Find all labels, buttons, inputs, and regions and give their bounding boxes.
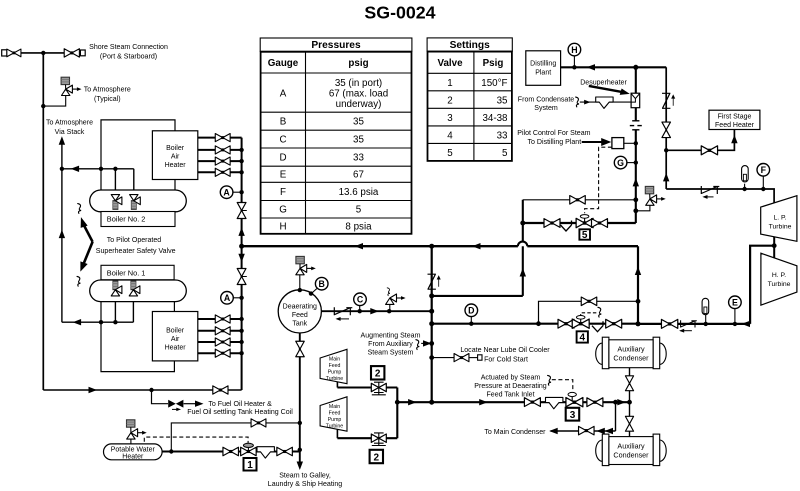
svg-text:5: 5 [356, 205, 362, 216]
svg-text:2: 2 [375, 369, 381, 380]
svg-text:Laundry & Ship Heating: Laundry & Ship Heating [268, 481, 343, 488]
svg-text:Tank: Tank [292, 321, 307, 328]
svg-text:psig: psig [348, 58, 368, 69]
svg-text:Pump: Pump [328, 370, 342, 376]
svg-text:Via Stack: Via Stack [55, 129, 85, 136]
svg-text:5: 5 [502, 148, 508, 159]
svg-text:35: 35 [497, 95, 508, 106]
svg-text:35: 35 [353, 135, 364, 146]
svg-text:67 (max. load: 67 (max. load [329, 89, 388, 100]
svg-text:Heater: Heater [122, 454, 144, 461]
svg-text:H: H [571, 45, 577, 55]
svg-text:F: F [761, 165, 767, 175]
svg-text:1: 1 [247, 460, 253, 471]
svg-text:D: D [468, 306, 474, 316]
svg-text:Main: Main [329, 357, 340, 363]
svg-text:Gauge: Gauge [268, 58, 299, 69]
svg-text:Plant: Plant [535, 70, 551, 77]
svg-text:Pressure at Deaerating: Pressure at Deaerating [474, 383, 547, 390]
svg-text:Desuperheater: Desuperheater [580, 80, 627, 87]
svg-text:13.6 psia: 13.6 psia [339, 187, 379, 198]
svg-text:Heater: Heater [165, 345, 187, 352]
svg-text:Superheater Safety Valve: Superheater Safety Valve [96, 248, 176, 255]
svg-text:underway): underway) [336, 99, 382, 110]
svg-text:To Distilling Plant: To Distilling Plant [528, 139, 582, 146]
svg-text:Condenser: Condenser [613, 354, 649, 363]
svg-text:Psig: Psig [483, 58, 504, 69]
svg-text:Condenser: Condenser [613, 451, 649, 460]
svg-text:Turbine: Turbine [769, 224, 792, 231]
svg-text:Augmenting Steam: Augmenting Steam [361, 333, 421, 340]
svg-text:System: System [534, 105, 558, 112]
svg-text:H: H [279, 221, 286, 232]
svg-text:Feed Heater: Feed Heater [715, 122, 755, 129]
svg-text:Actuated by Steam: Actuated by Steam [481, 375, 541, 382]
svg-text:L. P.: L. P. [773, 215, 786, 222]
svg-text:Boiler No. 1: Boiler No. 1 [107, 269, 146, 278]
svg-text:(Port & Starboard): (Port & Starboard) [100, 54, 157, 61]
svg-text:C: C [279, 135, 286, 146]
svg-text:Air: Air [171, 153, 180, 160]
svg-text:H. P.: H. P. [772, 272, 786, 279]
svg-text:3: 3 [447, 113, 453, 124]
svg-text:Turbine: Turbine [768, 281, 791, 288]
svg-text:Steam System: Steam System [368, 350, 414, 357]
svg-text:Main: Main [329, 404, 340, 410]
svg-text:67: 67 [353, 170, 364, 181]
svg-text:35: 35 [353, 117, 364, 128]
svg-text:Feed: Feed [329, 411, 341, 417]
svg-text:4: 4 [447, 130, 453, 141]
svg-text:3: 3 [570, 410, 576, 421]
svg-text:To Atmosphere: To Atmosphere [46, 120, 93, 127]
svg-text:E: E [280, 170, 287, 181]
svg-text:Steam to Galley,: Steam to Galley, [279, 473, 331, 480]
svg-text:150°F: 150°F [481, 78, 507, 89]
svg-text:To Fuel Oil Heater &: To Fuel Oil Heater & [208, 401, 272, 408]
svg-text:2: 2 [447, 95, 452, 106]
svg-text:Turbine: Turbine [326, 376, 344, 382]
svg-text:Deaerating: Deaerating [283, 304, 317, 311]
svg-text:Auxiliary: Auxiliary [617, 442, 645, 451]
svg-text:B: B [319, 279, 325, 289]
svg-text:E: E [732, 298, 738, 308]
svg-text:Pressures: Pressures [311, 40, 361, 51]
svg-text:SG-0024: SG-0024 [364, 3, 435, 23]
svg-text:A: A [280, 89, 287, 100]
svg-text:Boiler: Boiler [166, 328, 185, 335]
svg-text:8 psia: 8 psia [345, 221, 372, 232]
svg-text:Air: Air [171, 336, 180, 343]
svg-text:Pump: Pump [328, 417, 342, 423]
svg-text:5: 5 [582, 230, 588, 241]
svg-text:First Stage: First Stage [718, 114, 752, 121]
svg-text:Feed: Feed [329, 363, 341, 369]
svg-text:Heater: Heater [165, 162, 187, 169]
svg-text:Boiler No. 2: Boiler No. 2 [107, 215, 146, 224]
svg-text:Valve: Valve [437, 58, 463, 69]
svg-text:G: G [617, 158, 624, 168]
svg-text:33: 33 [353, 153, 364, 164]
svg-text:From Condensate: From Condensate [518, 97, 574, 104]
svg-text:C: C [357, 295, 364, 305]
svg-text:From Auxiliary: From Auxiliary [368, 341, 413, 348]
svg-text:A: A [224, 293, 231, 303]
svg-text:To Pilot Operated: To Pilot Operated [107, 237, 162, 244]
svg-text:Fuel Oil settling Tank Heating: Fuel Oil settling Tank Heating Coil [187, 409, 293, 416]
svg-text:(Typical): (Typical) [94, 96, 121, 103]
svg-text:Feed Tank Inlet: Feed Tank Inlet [486, 392, 534, 399]
svg-text:F: F [280, 187, 286, 198]
svg-text:Auxiliary: Auxiliary [617, 345, 645, 354]
svg-text:Potable Water: Potable Water [111, 446, 156, 453]
svg-text:Settings: Settings [450, 40, 491, 51]
svg-text:5: 5 [447, 148, 453, 159]
svg-text:Feed: Feed [292, 312, 308, 319]
svg-text:Distilling: Distilling [530, 61, 556, 68]
svg-text:To Atmosphere: To Atmosphere [84, 87, 131, 94]
svg-text:D: D [279, 153, 286, 164]
svg-text:2: 2 [374, 452, 380, 463]
svg-text:Pilot Control For Steam: Pilot Control For Steam [517, 130, 590, 137]
svg-text:35 (in port): 35 (in port) [335, 78, 382, 89]
svg-text:G: G [279, 205, 287, 216]
svg-text:Shore Steam Connection: Shore Steam Connection [89, 44, 168, 51]
svg-text:To Main Condenser: To Main Condenser [484, 429, 546, 436]
svg-text:For Cold Start: For Cold Start [484, 356, 528, 363]
svg-text:Boiler: Boiler [166, 145, 185, 152]
svg-text:34-38: 34-38 [482, 113, 508, 124]
svg-text:Locate Near Lube Oil Cooler: Locate Near Lube Oil Cooler [460, 347, 550, 354]
svg-text:A: A [223, 187, 230, 197]
svg-text:4: 4 [580, 332, 586, 343]
svg-text:1: 1 [447, 78, 452, 89]
svg-text:Turbine: Turbine [326, 424, 344, 430]
svg-text:B: B [280, 117, 287, 128]
svg-text:33: 33 [497, 130, 508, 141]
